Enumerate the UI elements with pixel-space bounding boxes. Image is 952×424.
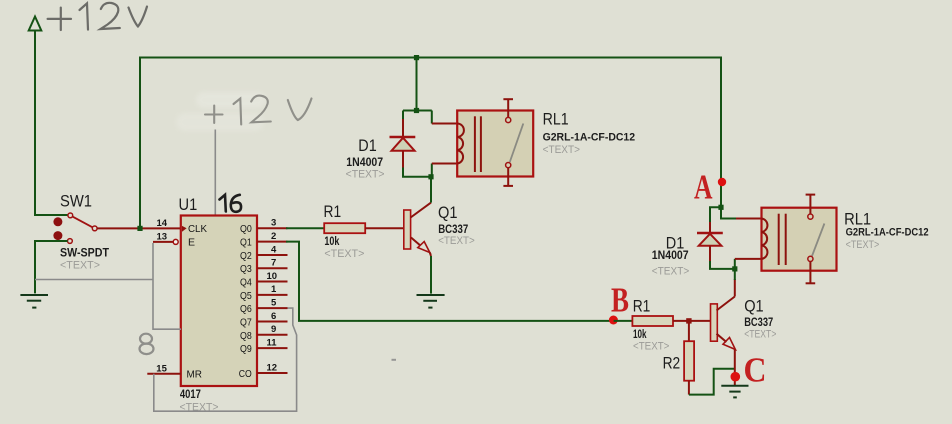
stray pen mark <box>392 359 397 361</box>
wire Q1 right emitter down to node C <box>734 350 736 386</box>
wire node B to R1 right <box>614 320 633 322</box>
pin MR stub <box>147 373 181 375</box>
power symbol +12V arrow <box>29 17 42 31</box>
node C dot <box>731 372 741 382</box>
wire Q0 to R1 <box>286 227 324 229</box>
relay RL1 (middle) body <box>457 111 533 177</box>
node B label <box>611 280 629 319</box>
wire Q1 emitter down to ground <box>430 256 432 294</box>
label Q1 right <box>744 297 764 316</box>
node junction dot on top rail <box>414 55 419 60</box>
svg-text:14: 14 <box>157 218 168 229</box>
svg-text:Q5: Q5 <box>240 290 252 302</box>
label D1 <box>358 136 376 155</box>
svg-text:RL1: RL1 <box>543 110 569 129</box>
junction dot R1/R2 <box>686 318 691 323</box>
wire Q1 collector up to junction <box>430 177 432 203</box>
switch SW1 <box>53 213 97 243</box>
svg-text:<TEXT>: <TEXT> <box>652 266 689 278</box>
label SW1 <box>60 192 92 211</box>
svg-text:1N4007: 1N4007 <box>652 248 689 262</box>
pin E stub with bubble <box>153 239 178 244</box>
diode D1 (middle) 1N4007 <box>390 119 416 169</box>
label RL1 <box>543 110 569 129</box>
pin Q2 label <box>240 250 252 262</box>
wire R1 to Q1 base (red) <box>365 227 404 229</box>
svg-text:RL1: RL1 <box>844 210 871 229</box>
svg-text:6: 6 <box>271 311 276 322</box>
pin MR label <box>187 369 203 381</box>
svg-text:1N4007: 1N4007 <box>346 155 383 169</box>
svg-text:Q6: Q6 <box>240 303 252 315</box>
svg-text:Q8: Q8 <box>240 330 252 342</box>
pin CO label <box>239 368 252 380</box>
wire R2 bottom to node C <box>689 369 735 395</box>
svg-text:<TEXT>: <TEXT> <box>438 235 475 247</box>
wire junction to D1 top and RL1 coil top <box>403 111 432 124</box>
pin 10 stub <box>257 271 288 282</box>
junction dot below D1 <box>428 174 433 179</box>
pin Q6 label <box>240 303 252 315</box>
transistor Q1 (right) BC337 <box>711 279 736 350</box>
junction dot below D1 right <box>732 266 737 271</box>
pin 3 stub <box>257 218 288 229</box>
label RL1 right <box>844 210 871 229</box>
svg-text:G2RL-1A-CF-DC12: G2RL-1A-CF-DC12 <box>543 131 636 143</box>
placeholder text under RL1 <box>543 144 580 156</box>
svg-text:12: 12 <box>267 362 278 373</box>
wire D1 bottom to junction <box>403 168 431 177</box>
wire junction to D1 right top <box>710 207 721 224</box>
svg-text:Q4: Q4 <box>240 277 252 289</box>
pin CLK label <box>188 223 207 235</box>
svg-text:U1: U1 <box>179 195 198 214</box>
value G2RL-1A-CF-DC12 right <box>846 227 929 239</box>
svg-text:9: 9 <box>271 324 276 335</box>
pin number 14 <box>157 218 168 229</box>
placeholder text under D1 <box>346 168 385 180</box>
svg-text:CO: CO <box>239 368 252 380</box>
relay RL1 coil <box>457 116 481 172</box>
node A label <box>694 168 713 207</box>
value BC337 <box>438 222 468 236</box>
value BC337 right <box>744 315 773 329</box>
pin Q3 label <box>240 263 252 275</box>
svg-text:1: 1 <box>271 284 277 295</box>
ground under node C <box>721 386 748 398</box>
placeholder text under R1 right <box>633 341 669 353</box>
svg-text:2: 2 <box>271 231 276 242</box>
pin 12 stub <box>257 362 288 373</box>
transistor Q1 (middle) BC337 <box>404 203 431 256</box>
svg-text:BC337: BC337 <box>744 315 773 329</box>
junction dot node A branch <box>718 205 723 210</box>
wire switch lower contact to ground <box>35 241 68 293</box>
top +12V rail wire <box>140 58 721 229</box>
pin E label <box>188 237 195 249</box>
svg-text:SW1: SW1 <box>60 192 92 211</box>
svg-text:10: 10 <box>267 271 278 282</box>
resistor R2 <box>684 341 694 381</box>
wire junction to RL1 right coil top <box>721 207 736 218</box>
value 4017 <box>180 387 201 401</box>
placeholder text under SW1 <box>60 260 100 272</box>
svg-text:Q3: Q3 <box>240 263 252 275</box>
svg-text:<TEXT>: <TEXT> <box>324 248 364 260</box>
IC U1 4017 body <box>181 216 257 387</box>
wire rail branch down to D1/RL1 <box>416 58 418 111</box>
pin 6 stub <box>257 311 288 322</box>
ground under Q1 middle <box>417 295 445 308</box>
svg-text:<TEXT>: <TEXT> <box>846 239 880 251</box>
pin 5 stub <box>257 298 288 309</box>
pin Q5 label <box>240 290 252 302</box>
resistor R1 (middle) <box>324 223 365 233</box>
svg-text:4017: 4017 <box>180 387 201 401</box>
placeholder text under RL1 right <box>846 239 880 251</box>
svg-text:SW-SPDT: SW-SPDT <box>60 246 110 260</box>
junction dot above D1 <box>414 108 419 113</box>
placeholder text under D1 right <box>652 266 689 278</box>
label R1 <box>324 202 342 221</box>
svg-text:R2: R2 <box>663 354 681 373</box>
svg-text:10k: 10k <box>633 327 647 341</box>
svg-text:MR: MR <box>187 369 203 381</box>
pin Q4 label <box>240 277 252 289</box>
wire junction up to RL1 coil bottom <box>431 164 433 177</box>
label U1 <box>179 195 198 214</box>
junction dot rail/switch wire <box>137 226 142 231</box>
handwritten +12 V (above U1, light grey) <box>176 92 266 131</box>
svg-text:3: 3 <box>271 218 276 229</box>
svg-text:R1: R1 <box>633 297 651 316</box>
svg-text:<TEXT>: <TEXT> <box>633 341 669 353</box>
handwritten +12 V (top left, grey) <box>48 3 147 30</box>
value SW-SPDT <box>60 246 110 260</box>
label R1 right <box>633 297 651 316</box>
wire D1 right bottom to junction <box>710 261 735 269</box>
pin 11 stub <box>257 337 288 348</box>
label Q1 <box>438 203 458 222</box>
pin Q1 label <box>240 237 252 249</box>
svg-text:Q1: Q1 <box>744 297 764 316</box>
grey power wire from 16 to U1 top <box>214 130 216 216</box>
svg-text:<TEXT>: <TEXT> <box>60 260 100 272</box>
svg-text:G2RL-1A-CF-DC12: G2RL-1A-CF-DC12 <box>846 227 929 239</box>
pin 1 stub <box>257 284 288 295</box>
wire switch pole to CLK pin (red) <box>97 227 181 229</box>
pin number 13 <box>157 232 168 243</box>
svg-text:E: E <box>188 237 195 249</box>
wire Q1 to node B (long) <box>286 242 614 321</box>
resistor R1 (right) <box>632 316 673 326</box>
RL1 right coil pin stubs <box>735 219 762 259</box>
node C label <box>744 351 767 390</box>
svg-text:<TEXT>: <TEXT> <box>543 144 580 156</box>
svg-text:4: 4 <box>271 244 277 255</box>
placeholder text under R1 <box>324 248 364 260</box>
value G2RL-1A-CF-DC12 <box>543 131 636 143</box>
svg-text:10k: 10k <box>324 234 339 248</box>
pin Q9 label <box>240 343 252 355</box>
value 10k <box>324 234 339 248</box>
grey net E pin to ground wire and pin8 <box>35 243 181 329</box>
value 1N4007 right <box>652 248 689 262</box>
svg-text:Q0: Q0 <box>240 223 252 235</box>
relay RL1 right coil <box>762 214 786 265</box>
svg-text:Q9: Q9 <box>240 343 252 355</box>
svg-text:D1: D1 <box>358 136 376 155</box>
svg-text:B: B <box>611 280 629 319</box>
label R2 <box>663 354 681 373</box>
diode D1 (right) 1N4007 <box>697 222 723 262</box>
pin 4 stub <box>257 244 288 255</box>
handwritten 16 (pin 16 annotation) <box>220 195 242 212</box>
pin 2 stub <box>257 231 288 242</box>
node A dot <box>718 178 726 186</box>
svg-text:Q7: Q7 <box>240 317 252 329</box>
svg-text:Q1: Q1 <box>438 203 458 222</box>
relay RL1 right contact <box>806 195 825 284</box>
svg-text:CLK: CLK <box>188 223 207 235</box>
svg-text:<TEXT>: <TEXT> <box>744 329 776 341</box>
wire Q1 right collector up to junction <box>734 269 736 280</box>
pin Q0 label <box>240 223 252 235</box>
svg-text:<TEXT>: <TEXT> <box>346 168 385 180</box>
relay RL1 (right) body <box>762 208 837 271</box>
pin Q8 label <box>240 330 252 342</box>
relay RL1 contact <box>503 99 523 186</box>
value 10k right <box>633 327 647 341</box>
wire power arrow to switch top contact <box>35 31 68 216</box>
wire junction down to R2 <box>688 321 690 341</box>
wire junction to RL1 right coil bottom <box>734 259 736 269</box>
svg-text:R1: R1 <box>324 202 342 221</box>
svg-text:C: C <box>744 351 767 390</box>
node B dot <box>609 316 618 325</box>
svg-text:5: 5 <box>271 298 277 309</box>
RL1 coil pin stubs (red) <box>432 124 457 164</box>
pin Q7 label <box>240 317 252 329</box>
value 1N4007 <box>346 155 383 169</box>
pin 9 stub <box>257 324 288 335</box>
svg-text:Q1: Q1 <box>240 237 252 249</box>
placeholder text under Q1 right <box>744 329 776 341</box>
pin 7 stub <box>257 258 288 269</box>
svg-text:11: 11 <box>267 337 278 348</box>
pin number 15 <box>156 363 167 374</box>
wire R1 right to Q1 base (red) <box>673 320 711 322</box>
handwritten 8 (pin 8 annotation) <box>140 334 154 354</box>
placeholder text under U1 <box>180 401 219 413</box>
label D1 right <box>666 234 685 253</box>
clock symbol CLK pin <box>182 226 187 232</box>
svg-text:7: 7 <box>271 258 276 269</box>
svg-text:Q2: Q2 <box>240 250 252 262</box>
svg-text:A: A <box>694 168 713 207</box>
placeholder text under Q1 <box>438 235 475 247</box>
grey net MR to Q6 <box>154 308 297 411</box>
ground under SW1 <box>20 295 48 308</box>
